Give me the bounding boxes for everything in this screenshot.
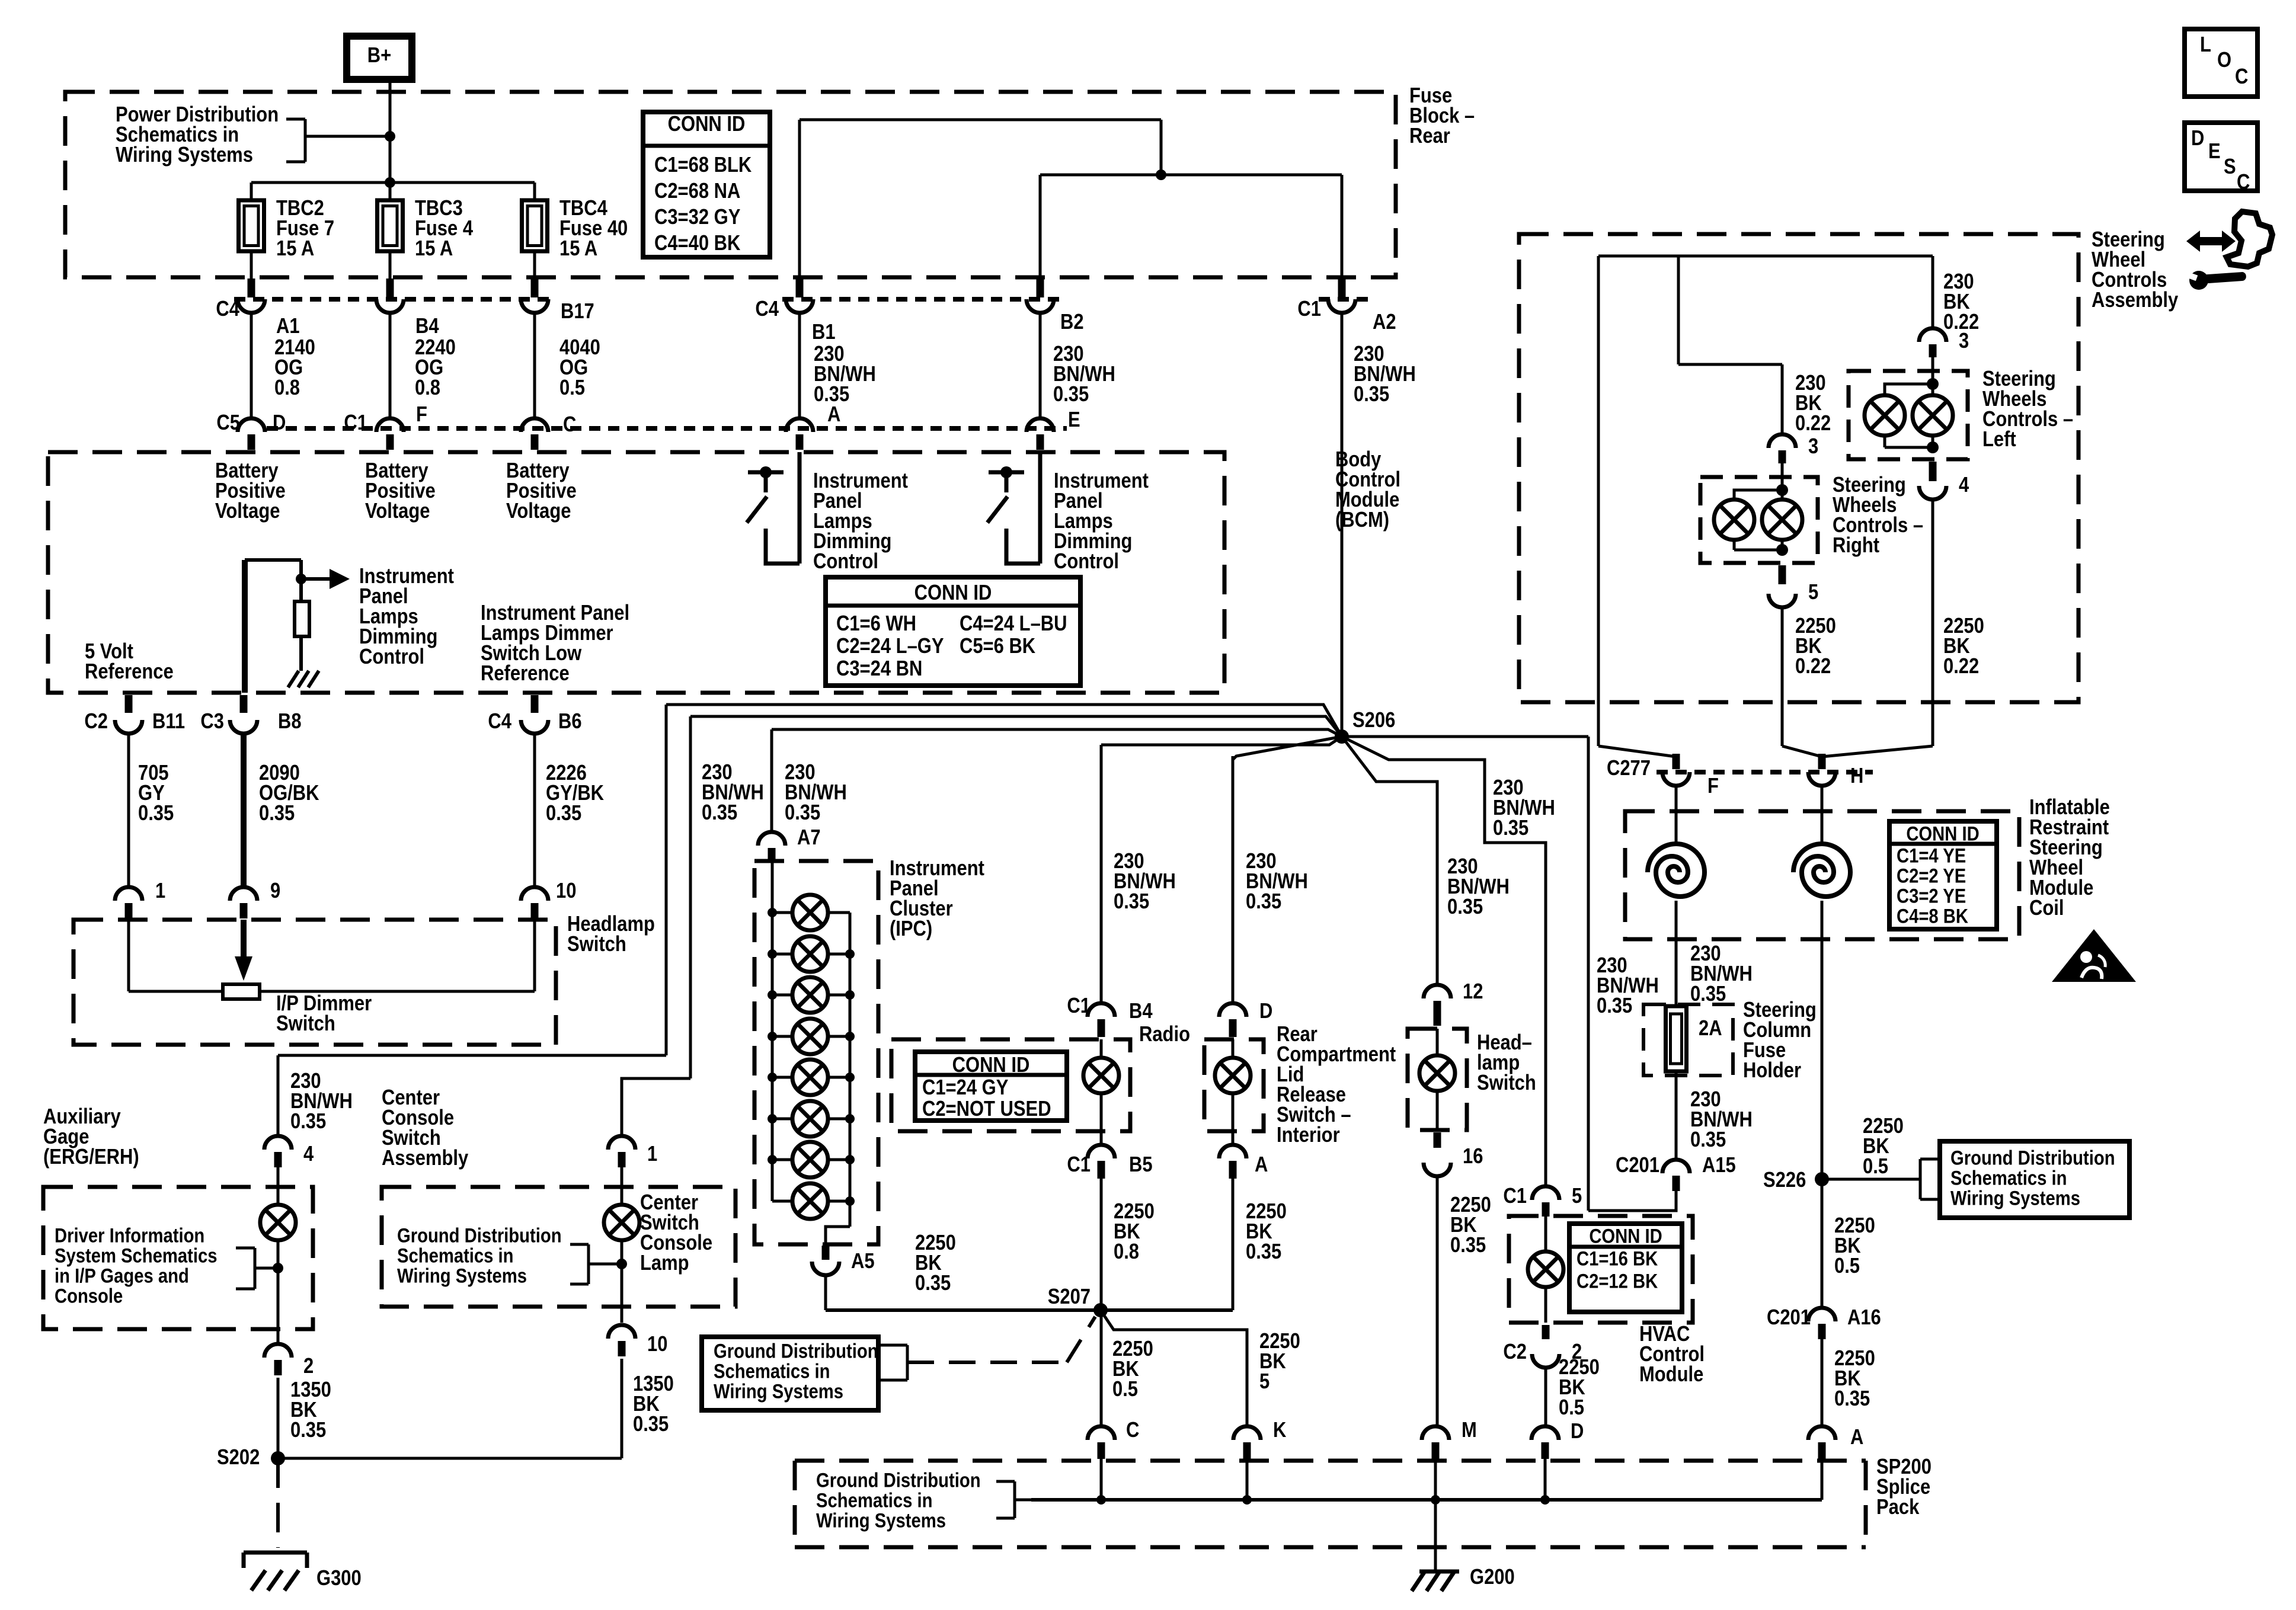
svg-text:Pack: Pack xyxy=(1876,1496,1920,1519)
svg-text:0.5: 0.5 xyxy=(1559,1396,1584,1420)
svg-text:C: C xyxy=(2235,65,2248,89)
svg-text:CONN ID: CONN ID xyxy=(914,581,992,605)
svg-text:S206: S206 xyxy=(1352,709,1395,732)
svg-text:0.35: 0.35 xyxy=(633,1413,669,1436)
svg-text:D: D xyxy=(2191,127,2204,151)
svg-text:A5: A5 xyxy=(851,1250,875,1273)
svg-text:C5=6 BK: C5=6 BK xyxy=(960,635,1035,658)
svg-text:4: 4 xyxy=(1959,473,1969,497)
svg-text:2A: 2A xyxy=(1699,1017,1722,1041)
svg-text:D: D xyxy=(273,411,286,435)
svg-text:A: A xyxy=(827,403,840,427)
svg-text:CONN ID: CONN ID xyxy=(1906,822,1979,845)
svg-text:10: 10 xyxy=(647,1333,667,1356)
svg-text:C1: C1 xyxy=(1503,1185,1527,1208)
svg-text:0.5: 0.5 xyxy=(1834,1254,1860,1278)
svg-text:10: 10 xyxy=(556,879,576,903)
svg-text:B4: B4 xyxy=(1129,1000,1153,1023)
svg-text:L: L xyxy=(2200,33,2211,57)
svg-text:0.35: 0.35 xyxy=(1834,1387,1870,1411)
svg-text:4: 4 xyxy=(303,1142,314,1166)
svg-text:S: S xyxy=(2224,155,2236,179)
svg-text:Schematics in: Schematics in xyxy=(1950,1166,2067,1189)
svg-text:A: A xyxy=(1850,1426,1863,1449)
svg-text:C2=68 NA: C2=68 NA xyxy=(654,180,740,203)
svg-text:C3=24 BN: C3=24 BN xyxy=(836,657,922,681)
svg-text:Module: Module xyxy=(1639,1363,1703,1387)
svg-text:Ground Distribution: Ground Distribution xyxy=(397,1224,562,1247)
svg-text:0.22: 0.22 xyxy=(1943,311,1979,334)
svg-text:O: O xyxy=(2217,49,2231,72)
svg-text:C3=32 GY: C3=32 GY xyxy=(654,206,740,229)
svg-text:C1=6 WH: C1=6 WH xyxy=(836,612,916,636)
svg-text:0.8: 0.8 xyxy=(1114,1240,1139,1264)
svg-text:Interior: Interior xyxy=(1277,1124,1340,1147)
svg-text:Control: Control xyxy=(1054,550,1119,574)
svg-text:E: E xyxy=(1068,408,1080,432)
svg-text:0.35: 0.35 xyxy=(702,801,737,825)
svg-text:B+: B+ xyxy=(367,44,391,68)
svg-text:C2=NOT USED: C2=NOT USED xyxy=(922,1097,1051,1121)
svg-text:C277: C277 xyxy=(1607,757,1651,780)
svg-text:C4=24 L–BU: C4=24 L–BU xyxy=(960,612,1067,636)
svg-text:B5: B5 xyxy=(1129,1153,1153,1177)
svg-text:Reference: Reference xyxy=(481,662,570,686)
svg-text:0.35: 0.35 xyxy=(915,1272,951,1295)
svg-text:H: H xyxy=(1850,764,1863,788)
svg-text:Wiring Systems: Wiring Systems xyxy=(816,1509,946,1532)
svg-text:0.35: 0.35 xyxy=(1690,982,1726,1006)
svg-text:in I/P Gages and: in I/P Gages and xyxy=(55,1264,189,1287)
svg-text:A7: A7 xyxy=(797,826,821,850)
svg-text:A: A xyxy=(1255,1153,1268,1177)
svg-text:Left: Left xyxy=(1982,428,2016,452)
svg-text:C201: C201 xyxy=(1767,1306,1811,1330)
svg-text:C1=24 GY: C1=24 GY xyxy=(922,1076,1008,1100)
svg-text:Assembly: Assembly xyxy=(2092,289,2179,312)
svg-text:2: 2 xyxy=(303,1355,314,1378)
svg-text:12: 12 xyxy=(1463,980,1483,1004)
svg-text:0.35: 0.35 xyxy=(1690,1128,1726,1152)
svg-text:C2: C2 xyxy=(1503,1340,1527,1364)
svg-text:0.5: 0.5 xyxy=(559,376,585,400)
svg-text:C2=24 L–GY: C2=24 L–GY xyxy=(836,635,944,658)
svg-text:5: 5 xyxy=(1572,1185,1582,1208)
svg-text:0.22: 0.22 xyxy=(1943,655,1979,678)
svg-text:0.35: 0.35 xyxy=(785,801,820,825)
svg-text:C5: C5 xyxy=(216,411,240,435)
svg-text:Schematics in: Schematics in xyxy=(397,1244,514,1267)
svg-text:0.35: 0.35 xyxy=(1450,1234,1486,1257)
svg-text:0.8: 0.8 xyxy=(274,376,300,400)
svg-text:0.35: 0.35 xyxy=(1053,383,1089,406)
svg-text:16: 16 xyxy=(1463,1145,1483,1169)
svg-text:CONN ID: CONN ID xyxy=(1589,1224,1662,1247)
svg-text:Wiring Systems: Wiring Systems xyxy=(714,1379,843,1403)
svg-text:F: F xyxy=(1707,774,1719,798)
svg-text:Schematics in: Schematics in xyxy=(816,1489,933,1512)
svg-text:(BCM): (BCM) xyxy=(1335,508,1389,532)
svg-text:0.5: 0.5 xyxy=(1863,1155,1888,1179)
svg-text:0.5: 0.5 xyxy=(1112,1378,1138,1401)
svg-text:E: E xyxy=(2208,140,2221,164)
svg-text:B11: B11 xyxy=(152,710,185,734)
svg-text:Radio: Radio xyxy=(1139,1023,1190,1046)
svg-text:15 A: 15 A xyxy=(415,237,453,261)
svg-text:Rear: Rear xyxy=(1409,124,1450,148)
svg-text:C1=4 YE: C1=4 YE xyxy=(1897,844,1966,867)
svg-text:0.35: 0.35 xyxy=(290,1419,326,1442)
svg-text:A16: A16 xyxy=(1847,1306,1881,1330)
svg-text:B1: B1 xyxy=(812,321,836,344)
svg-text:0.8: 0.8 xyxy=(415,376,440,400)
svg-text:Switch: Switch xyxy=(567,933,626,956)
svg-text:Console: Console xyxy=(55,1284,123,1307)
svg-text:F: F xyxy=(416,403,427,427)
svg-text:Ground Distribution: Ground Distribution xyxy=(714,1339,878,1362)
svg-text:0.35: 0.35 xyxy=(1447,895,1483,919)
svg-text:C1=68 BLK: C1=68 BLK xyxy=(654,153,752,177)
svg-text:B4: B4 xyxy=(415,315,439,338)
svg-text:Wiring Systems: Wiring Systems xyxy=(116,143,253,167)
svg-text:C4: C4 xyxy=(216,297,239,321)
svg-text:0.35: 0.35 xyxy=(1597,994,1632,1018)
svg-text:C2: C2 xyxy=(84,710,108,734)
svg-text:Control: Control xyxy=(813,550,878,574)
svg-text:S226: S226 xyxy=(1763,1169,1806,1192)
svg-text:D: D xyxy=(1259,1000,1272,1023)
svg-text:Driver Information: Driver Information xyxy=(55,1224,204,1247)
svg-text:Reference: Reference xyxy=(85,660,174,684)
svg-text:M: M xyxy=(1462,1419,1477,1442)
svg-text:Switch: Switch xyxy=(276,1012,335,1036)
svg-text:C: C xyxy=(2237,171,2250,194)
svg-text:A15: A15 xyxy=(1702,1154,1736,1177)
svg-text:S202: S202 xyxy=(217,1446,260,1470)
svg-text:S207: S207 xyxy=(1048,1285,1091,1309)
svg-text:B6: B6 xyxy=(558,710,582,734)
svg-text:0.35: 0.35 xyxy=(259,802,295,825)
svg-text:C4=8 BK: C4=8 BK xyxy=(1897,904,1968,927)
svg-text:0.35: 0.35 xyxy=(1493,817,1528,840)
svg-text:C4: C4 xyxy=(755,297,779,321)
svg-text:B17: B17 xyxy=(561,300,594,324)
svg-text:0.35: 0.35 xyxy=(290,1110,326,1134)
svg-text:Right: Right xyxy=(1833,534,1879,558)
svg-text:D: D xyxy=(1571,1420,1584,1443)
svg-text:G300: G300 xyxy=(316,1567,362,1590)
svg-text:C1=16 BK: C1=16 BK xyxy=(1576,1247,1658,1270)
svg-text:Schematics in: Schematics in xyxy=(714,1359,830,1382)
svg-text:Control: Control xyxy=(359,645,424,669)
svg-text:Voltage: Voltage xyxy=(215,500,280,523)
svg-text:Wiring Systems: Wiring Systems xyxy=(1950,1186,2080,1209)
svg-text:CONN ID: CONN ID xyxy=(668,113,746,136)
svg-text:Voltage: Voltage xyxy=(365,500,430,523)
svg-text:C3=2 YE: C3=2 YE xyxy=(1897,884,1966,907)
svg-text:3: 3 xyxy=(1808,435,1818,459)
svg-text:C1: C1 xyxy=(1297,297,1321,321)
svg-text:0.22: 0.22 xyxy=(1795,412,1831,436)
svg-text:C201: C201 xyxy=(1616,1154,1659,1177)
svg-text:Assembly: Assembly xyxy=(382,1147,469,1170)
svg-text:A1: A1 xyxy=(276,315,300,338)
svg-text:1: 1 xyxy=(647,1142,657,1166)
svg-text:Switch: Switch xyxy=(1477,1071,1536,1095)
svg-text:C1: C1 xyxy=(344,411,367,435)
svg-text:C2=12 BK: C2=12 BK xyxy=(1576,1269,1658,1292)
svg-text:(IPC): (IPC) xyxy=(890,917,932,941)
svg-text:Lamp: Lamp xyxy=(640,1251,689,1275)
svg-text:15 A: 15 A xyxy=(276,237,314,261)
svg-text:B2: B2 xyxy=(1060,311,1084,334)
svg-text:System Schematics: System Schematics xyxy=(55,1244,218,1267)
svg-text:C1: C1 xyxy=(1067,1153,1091,1177)
svg-text:C: C xyxy=(563,413,576,437)
svg-text:C4: C4 xyxy=(488,710,511,734)
svg-text:B8: B8 xyxy=(278,710,302,734)
svg-text:C2=2 YE: C2=2 YE xyxy=(1897,864,1966,887)
svg-text:0.22: 0.22 xyxy=(1795,655,1831,678)
svg-text:1: 1 xyxy=(155,879,165,903)
svg-text:Coil: Coil xyxy=(2029,897,2064,920)
svg-text:0.35: 0.35 xyxy=(546,802,581,825)
svg-text:9: 9 xyxy=(270,879,280,903)
svg-text:A2: A2 xyxy=(1373,311,1396,334)
svg-text:Ground Distribution: Ground Distribution xyxy=(1950,1146,2115,1169)
svg-text:Voltage: Voltage xyxy=(506,500,571,523)
svg-text:Holder: Holder xyxy=(1743,1059,1801,1083)
svg-text:C4=40 BK: C4=40 BK xyxy=(654,232,740,255)
svg-text:Wiring Systems: Wiring Systems xyxy=(397,1264,527,1287)
svg-text:15 A: 15 A xyxy=(559,237,597,261)
svg-text:C1: C1 xyxy=(1067,994,1091,1018)
svg-text:0.35: 0.35 xyxy=(1114,890,1149,914)
svg-text:5: 5 xyxy=(1808,581,1818,604)
svg-text:0.35: 0.35 xyxy=(1354,383,1389,406)
svg-text:K: K xyxy=(1273,1419,1286,1442)
svg-text:Ground Distribution: Ground Distribution xyxy=(816,1468,981,1491)
svg-text:5: 5 xyxy=(1259,1370,1269,1394)
svg-text:G200: G200 xyxy=(1470,1566,1515,1589)
svg-text:0.35: 0.35 xyxy=(1246,1240,1281,1264)
svg-text:C3: C3 xyxy=(200,710,224,734)
svg-text:0.35: 0.35 xyxy=(138,802,174,825)
svg-text:C: C xyxy=(1126,1419,1139,1442)
svg-text:(ERG/ERH): (ERG/ERH) xyxy=(43,1145,139,1169)
svg-text:0.35: 0.35 xyxy=(1246,890,1281,914)
